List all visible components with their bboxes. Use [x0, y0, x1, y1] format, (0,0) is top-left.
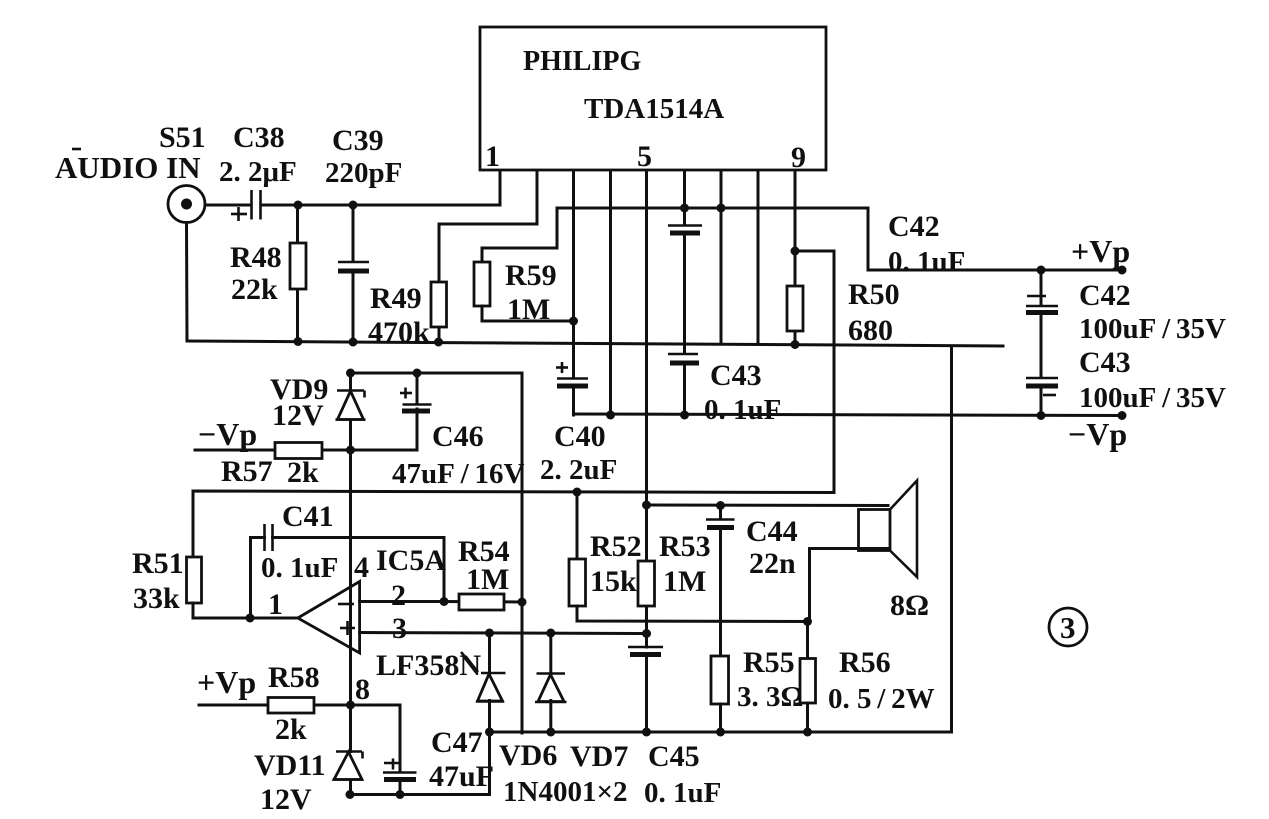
- svg-text:R50: R50: [848, 278, 900, 311]
- svg-text:TDA1514A: TDA1514A: [584, 93, 724, 125]
- svg-text:VD7: VD7: [570, 740, 628, 773]
- svg-text:5: 5: [637, 140, 652, 173]
- svg-text:R57: R57: [221, 455, 273, 488]
- svg-text:C43: C43: [710, 359, 762, 392]
- pin 8 wire down: [757, 171, 760, 344]
- node R48 bottom: [294, 337, 303, 346]
- capacitor C43a: [668, 226, 702, 354]
- node C47 bottom: [396, 790, 405, 799]
- capacitor C42 electrolytic: [1026, 270, 1058, 377]
- svg-text:100uF / 35V: 100uF / 35V: [1079, 382, 1226, 414]
- node pin 6 on bus: [680, 204, 689, 213]
- capacitor C47 electrolytic: [351, 705, 417, 795]
- pin 4 wire down: [609, 171, 612, 416]
- negative rail wire: [574, 414, 1123, 416]
- svg-text:4: 4: [354, 551, 369, 584]
- resistor R52: [569, 492, 808, 622]
- node R54 left: [440, 597, 449, 606]
- svg-text:C41: C41: [282, 500, 334, 533]
- svg-text:R48: R48: [230, 241, 282, 274]
- svg-text:2: 2: [391, 579, 406, 612]
- svg-text:1M: 1M: [663, 565, 706, 598]
- wire audio input to C38: [205, 204, 251, 207]
- resistor R53: [638, 561, 655, 606]
- node pin5 output: [642, 501, 651, 510]
- resistor R59: [474, 208, 574, 321]
- svg-text:C45: C45: [648, 740, 700, 773]
- svg-text:C40: C40: [554, 420, 606, 453]
- svg-text:−Vp: −Vp: [1068, 416, 1127, 452]
- svg-text:2. 2μF: 2. 2μF: [219, 156, 297, 188]
- svg-text:PHILIPG: PHILIPG: [523, 46, 641, 77]
- ground bus wire: [187, 341, 1003, 346]
- circled figure number 3: [1049, 608, 1087, 646]
- pin 1 stub: [499, 171, 502, 205]
- node VD6 bottom: [485, 728, 494, 737]
- op-amp pin 3 wire: [360, 633, 647, 634]
- resistor R55: [711, 656, 729, 732]
- node C43b on rail: [680, 411, 689, 420]
- speaker: [810, 481, 918, 622]
- svg-text:680: 680: [848, 314, 893, 347]
- node at C39 top: [349, 201, 358, 210]
- svg-text:220pF: 220pF: [325, 157, 402, 189]
- connector S51 AUDIO IN: [168, 186, 205, 223]
- capacitor C38: [231, 190, 261, 221]
- resistor R49 with wire to pin 2: [431, 171, 537, 342]
- node pin3 C45: [642, 629, 651, 638]
- svg-text:R52: R52: [590, 530, 642, 563]
- svg-text:8Ω: 8Ω: [890, 589, 929, 622]
- svg-text:8: 8: [355, 673, 370, 706]
- node at R48 top: [294, 201, 303, 210]
- svg-text:2. 2uF: 2. 2uF: [540, 454, 617, 486]
- rail endpoint dot: [1118, 411, 1127, 420]
- svg-text:0. 5 / 2W: 0. 5 / 2W: [828, 683, 935, 715]
- svg-text:15k: 15k: [590, 565, 637, 598]
- zener VD9: [336, 373, 366, 450]
- IC U1 TDA1514A box: [480, 27, 826, 170]
- wire S51 down: [185, 223, 189, 342]
- node R56 top: [803, 617, 812, 626]
- svg-text:100uF / 35V: 100uF / 35V: [1079, 313, 1226, 345]
- svg-text:470k: 470k: [368, 316, 430, 349]
- noise dash: [72, 148, 81, 151]
- svg-text:R53: R53: [659, 530, 711, 563]
- node C45 bottom: [642, 728, 651, 737]
- svg-text:33k: 33k: [133, 582, 180, 615]
- feedback wire R51 top: [193, 491, 834, 557]
- svg-text:C42: C42: [1079, 279, 1131, 312]
- svg-text:R58: R58: [268, 661, 320, 694]
- bottom bus wire: [490, 731, 952, 734]
- svg-text:1M: 1M: [466, 563, 509, 596]
- diode VD7: [535, 633, 567, 732]
- svg-text:+Vp: +Vp: [1071, 233, 1130, 269]
- resistor R50 with pin 9 wire: [787, 171, 803, 345]
- diode VD6: [476, 633, 506, 732]
- capacitor C41: [251, 524, 445, 618]
- node C46 top: [413, 369, 422, 378]
- svg-text:1: 1: [268, 588, 283, 621]
- svg-text:R59: R59: [505, 259, 557, 292]
- pin 6 wire down: [683, 171, 686, 225]
- svg-text:AUDIO IN: AUDIO IN: [55, 150, 201, 185]
- op-amp IC5A triangle: [298, 582, 360, 654]
- pin 3 wire down: [572, 171, 575, 378]
- capacitor C46 electrolytic: [351, 373, 432, 450]
- svg-text:47uF: 47uF: [429, 760, 494, 793]
- node rail C43: [1037, 411, 1046, 420]
- node C39 bottom: [349, 338, 358, 347]
- svg-text:2k: 2k: [287, 456, 319, 489]
- svg-text:0. 1uF: 0. 1uF: [704, 394, 781, 426]
- svg-text:R51: R51: [132, 547, 184, 580]
- wire through op-amp pin4 pin8: [349, 450, 352, 705]
- bus wire pins 6,7 to +Vp: [557, 208, 1122, 270]
- svg-text:C44: C44: [746, 515, 798, 548]
- resistor R51: [187, 557, 298, 618]
- node pin3 VD6: [485, 629, 494, 638]
- speaker return wire: [950, 346, 953, 732]
- resistor R48: [290, 205, 306, 341]
- svg-text:R49: R49: [370, 282, 422, 315]
- node R56 bottom: [803, 728, 812, 737]
- node R55 bottom: [716, 728, 725, 737]
- svg-text:47uF / 16V: 47uF / 16V: [392, 458, 525, 490]
- svg-text:C42: C42: [888, 210, 940, 243]
- svg-text:3: 3: [392, 612, 407, 645]
- node pin3 VD7: [546, 629, 555, 638]
- capacitor C45: [628, 647, 663, 732]
- output wire pin5 to speaker: [647, 504, 889, 508]
- node R49 bottom: [434, 338, 443, 347]
- svg-text:22k: 22k: [231, 273, 278, 306]
- resistor R56: [800, 622, 816, 733]
- svg-text:0. 1uF: 0. 1uF: [644, 777, 721, 809]
- svg-text:3. 3Ω: 3. 3Ω: [737, 681, 804, 713]
- svg-text:R55: R55: [743, 646, 795, 679]
- svg-text:0. 1uF: 0. 1uF: [261, 552, 338, 584]
- node pin 9 R50 top: [791, 247, 800, 256]
- svg-text:2k: 2k: [275, 713, 307, 746]
- svg-text:VD11: VD11: [254, 749, 326, 782]
- capacitor C40: [556, 362, 588, 415]
- node VD7 bottom: [546, 728, 555, 737]
- svg-text:12V: 12V: [260, 783, 312, 816]
- svg-text:VD6: VD6: [499, 739, 557, 772]
- svg-text:9: 9: [791, 141, 806, 174]
- svg-text:−Vp: −Vp: [198, 416, 257, 452]
- node R52 top: [573, 488, 582, 497]
- svg-text:12V: 12V: [272, 399, 324, 432]
- svg-text:+Vp: +Vp: [197, 664, 256, 700]
- bottom left wire: [350, 732, 490, 795]
- svg-text:C46: C46: [432, 420, 484, 453]
- svg-text:1: 1: [485, 140, 500, 173]
- node R57 VD9: [346, 446, 355, 455]
- node R59 to pin3 line: [569, 317, 578, 326]
- svg-text:22n: 22n: [749, 547, 796, 580]
- node R50 bottom: [791, 340, 800, 349]
- op-amp pin 2 wire: [360, 600, 444, 603]
- svg-text:0. 1uF: 0. 1uF: [888, 246, 965, 278]
- resistor R54: [444, 594, 522, 610]
- node R58 right: [346, 701, 355, 710]
- node VD9 top: [346, 369, 355, 378]
- capacitor C44: [706, 506, 735, 657]
- capacitor C43b: [668, 354, 699, 415]
- node pin 4 on rail: [606, 411, 615, 420]
- capacitor C39: [338, 205, 369, 342]
- svg-text:C38: C38: [233, 121, 285, 154]
- svg-text:LF358N: LF358N: [376, 649, 481, 682]
- +Vp endpoint dot: [1118, 266, 1127, 275]
- svg-text:C39: C39: [332, 124, 384, 157]
- resistor R57: [195, 443, 351, 459]
- node VD11 bottom: [346, 790, 355, 799]
- node C44 top: [716, 501, 725, 510]
- capacitor C43 electrolytic: [1026, 378, 1058, 416]
- svg-text:IC5A: IC5A: [376, 544, 446, 577]
- pin 7 wire down: [720, 171, 723, 344]
- zener VD11: [333, 705, 364, 795]
- svg-text:C47: C47: [431, 726, 483, 759]
- svg-text:3: 3: [1060, 610, 1076, 645]
- pin 5 wire down: [645, 171, 648, 647]
- wire VD9 top to C46 top to R54 line: [351, 373, 523, 733]
- resistor R58: [199, 698, 351, 714]
- wire C38 to pin 1: [261, 204, 500, 207]
- node op-amp pin1: [246, 614, 255, 623]
- node R54 right: [518, 598, 527, 607]
- node pin 7 on bus: [717, 204, 726, 213]
- svg-text:C43: C43: [1079, 346, 1131, 379]
- svg-text:1N4001×2: 1N4001×2: [503, 776, 627, 808]
- feedback wire from pin9 node: [795, 251, 834, 493]
- svg-text:R56: R56: [839, 646, 891, 679]
- svg-text:1M: 1M: [507, 293, 550, 326]
- node +Vp junction: [1037, 266, 1046, 275]
